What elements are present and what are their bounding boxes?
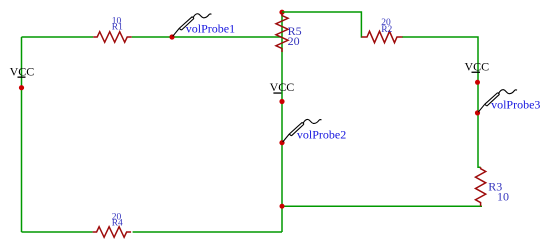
svg-text:R1: R1 (112, 23, 123, 33)
svg-text:VCC: VCC (465, 59, 490, 73)
node probe2 (279, 140, 284, 145)
wire bottom-right horizontal (282, 205, 482, 207)
svg-text:R2: R2 (381, 25, 392, 35)
svg-text:volProbe2: volProbe2 (297, 127, 346, 141)
resistor R4 (93, 227, 132, 238)
node VCC2 (279, 99, 284, 104)
wire top horizontal right of R1 (132, 36, 282, 38)
svg-text:volProbe1: volProbe1 (186, 22, 235, 36)
wire top right from node to R2 (282, 12, 362, 37)
resistor R1 (93, 32, 132, 43)
node probe3 (475, 110, 480, 115)
svg-text:20: 20 (288, 34, 300, 48)
wire bottom left of R4 (22, 231, 93, 233)
node top junction (279, 10, 284, 15)
probe icon 1 (173, 14, 212, 37)
wire bottom right of R4 (133, 231, 282, 233)
node VCC1 (19, 85, 24, 90)
probe icon 3 (478, 90, 517, 113)
svg-text:10: 10 (497, 189, 509, 203)
wire top horizontal left of R1 (22, 36, 94, 38)
svg-text:R4: R4 (112, 218, 123, 228)
wire left vertical (21, 37, 23, 232)
wire middle vertical (281, 12, 283, 232)
resistor R3 (476, 167, 486, 206)
resistor R2 (362, 31, 403, 42)
node probe1 (169, 34, 174, 39)
svg-text:volProbe3: volProbe3 (491, 97, 540, 111)
svg-text:VCC: VCC (270, 80, 295, 94)
probe icon 2 (283, 119, 322, 142)
node bottom junction (280, 204, 285, 209)
wire right of R2 down right side (402, 37, 481, 167)
node VCC3 (475, 80, 480, 85)
resistor R5 (276, 13, 288, 53)
